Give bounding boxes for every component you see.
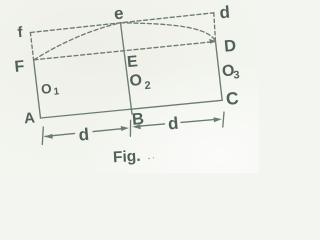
dimension lines xyxy=(42,112,224,145)
svg-text:F: F xyxy=(14,58,25,76)
wire: dashed chord F to D xyxy=(34,42,216,60)
wire: solid bottom edge A to C xyxy=(41,100,223,118)
node right dimension tick xyxy=(223,112,224,127)
svg-text:Fig.: Fig. xyxy=(113,148,141,166)
wire: right d dimension left arrow xyxy=(140,124,165,126)
svg-text:2: 2 xyxy=(144,80,151,92)
svg-text:D: D xyxy=(223,37,237,56)
wire: dashed arc e to D xyxy=(121,23,216,42)
wire: left d dimension right arrow xyxy=(93,128,125,131)
svg-text:A: A xyxy=(23,110,35,128)
wire: dashed right edge segment d-corner to D xyxy=(214,13,216,42)
svg-text:d: d xyxy=(78,125,90,145)
wire: solid middle vertical e to B xyxy=(121,23,133,114)
wire: right d dimension right arrow xyxy=(181,119,216,122)
svg-text:3: 3 xyxy=(233,69,240,81)
svg-text:O: O xyxy=(129,72,143,90)
svg-text:O: O xyxy=(40,81,52,97)
node left dimension tick xyxy=(42,127,43,145)
node middle dimension tick xyxy=(129,120,131,136)
svg-text:E: E xyxy=(126,53,138,71)
wire: dashed top edge f-corner to d-corner xyxy=(30,13,213,33)
wire: solid right edge D to C xyxy=(216,42,223,101)
node D arrowhead where dashed lines meet right edge xyxy=(209,39,216,44)
wire: left d dimension left arrow xyxy=(45,133,75,136)
svg-text:d: d xyxy=(219,3,231,23)
wire: dashed left edge segment f-corner to F xyxy=(30,33,33,61)
svg-text:B: B xyxy=(131,110,145,129)
paper background xyxy=(0,0,259,173)
svg-text:d: d xyxy=(167,114,179,134)
wire: solid left edge F to A xyxy=(34,60,41,118)
speck dots after Fig. xyxy=(148,158,150,160)
svg-text:e: e xyxy=(113,4,124,24)
svg-text:C: C xyxy=(225,88,240,109)
wire: dashed arc F to e xyxy=(34,23,121,60)
